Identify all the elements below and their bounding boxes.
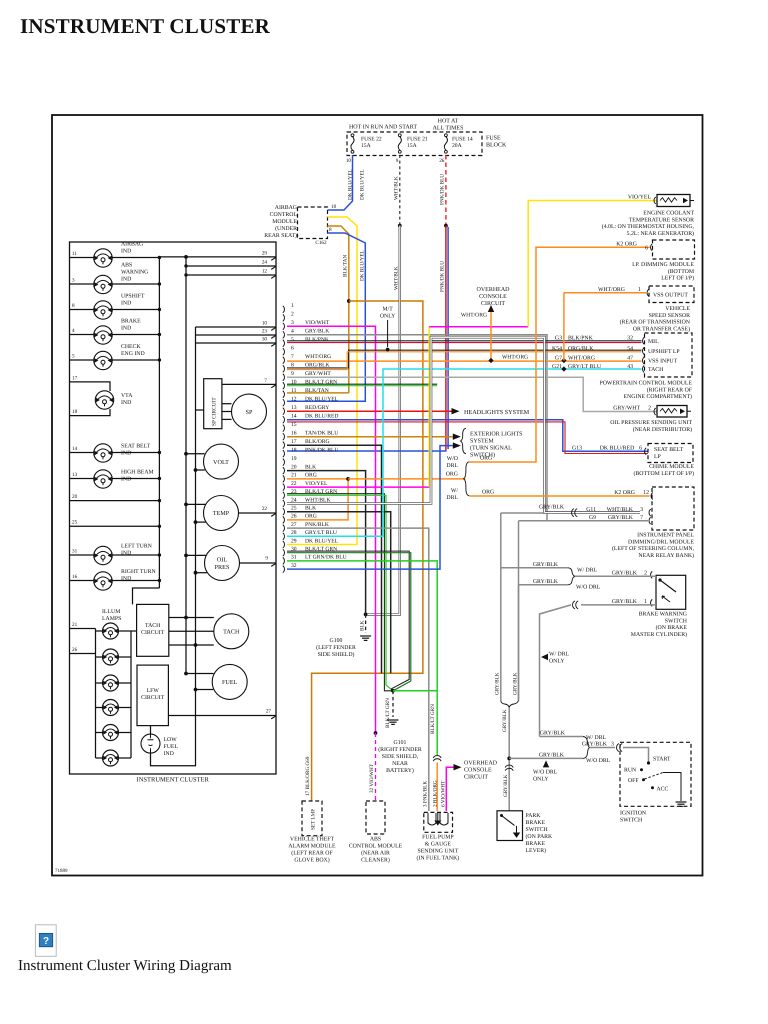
svg-text:WHT/ORG: WHT/ORG [568,355,595,361]
svg-text:17 BLK/ORG G69: 17 BLK/ORG G69 [305,756,311,796]
wire WHT/BLK from fuse 21 [399,155,401,226]
svg-text:ABS: ABS [121,263,132,269]
note W/ DRL ONLY [541,654,548,660]
svg-text:LFW: LFW [147,688,160,694]
tach circuit to tach gauge wires [169,617,214,619]
svg-text:SP: SP [246,409,253,416]
wire GRY/BLK 3 to ignition switch [623,748,649,764]
wire PNK/BLK pin 27 to fuel pump [287,528,429,811]
ignition switch [620,742,691,806]
svg-text:AIRBAG: AIRBAG [275,205,297,211]
seat belt lamp chime module [648,444,693,463]
cluster pin 7 wire [222,383,276,385]
svg-text:GRY/BLK: GRY/BLK [503,774,509,797]
svg-text:IND: IND [164,751,174,757]
wire BLK/TAN to cluster pin 11 [287,392,349,394]
svg-text:IND: IND [121,301,131,307]
svg-text:SIDE SHIELD): SIDE SHIELD) [318,651,355,658]
ignition merge brace [583,737,590,759]
wire PNK/DK BLU from fuse 14 [445,155,447,226]
svg-text:ORG: ORG [480,456,492,462]
tachometer gauge [214,614,249,649]
svg-text:8: 8 [72,303,75,309]
svg-text:15: 15 [291,422,297,428]
wire ORG pins 21 26 [287,479,348,520]
svg-text:14: 14 [291,414,297,420]
junction BLK [364,613,368,617]
wire VIO/WHT to ABS control module [375,733,377,801]
svg-text:9: 9 [396,158,399,164]
svg-text:(TURN SIGNAL: (TURN SIGNAL [470,445,512,452]
gauge bus B [195,327,197,690]
svg-text:20: 20 [72,494,78,500]
vehicle speed sensor VSS output [649,286,694,303]
park brake switch [497,811,523,841]
svg-text:21: 21 [291,473,297,479]
svg-text:LEFT OF I/P): LEFT OF I/P) [661,275,694,282]
svg-text:2: 2 [291,312,294,318]
svg-text:HOT IN RUN AND START: HOT IN RUN AND START [349,125,417,131]
wire VIO/WHT pin 3 [287,326,376,733]
svg-text:Instrument Cluster Wiring Diag: Instrument Cluster Wiring Diagram [18,958,232,974]
svg-text:5: 5 [72,354,75,360]
junction BLK/TAN [347,299,351,303]
svg-text:PRES: PRES [215,564,230,571]
svg-text:(REAR OF TRANSMISSION: (REAR OF TRANSMISSION [620,319,691,326]
svg-text:ONLY: ONLY [549,659,565,665]
wire BLK pin 25 [287,512,391,674]
svg-text:4: 4 [72,328,75,334]
svg-text:SYSTEM: SYSTEM [470,439,494,445]
svg-text:RIGHT TURN: RIGHT TURN [121,569,157,575]
svg-text:WHT/ORG: WHT/ORG [305,354,331,360]
svg-text:INSTRUMENT CLUSTER: INSTRUMENT CLUSTER [137,777,210,784]
svg-text:CIRCUIT: CIRCUIT [141,630,165,636]
svg-text:G13: G13 [572,445,582,451]
svg-text:W/ DRL: W/ DRL [549,652,570,658]
svg-text:6: 6 [291,346,294,352]
svg-text:ORG/BLK: ORG/BLK [568,346,594,352]
wire GRY/BLK w/o drl only [509,757,583,759]
cluster pin 27 wire [168,715,276,717]
wire ORG to IP dimming module [469,247,650,462]
svg-text:1: 1 [291,303,294,309]
svg-text:ENG IND: ENG IND [121,351,145,357]
svg-text:ALL TIMES: ALL TIMES [433,126,464,132]
svg-text:W/O DRL: W/O DRL [533,770,558,776]
svg-text:DIMMING/DRL MODULE: DIMMING/DRL MODULE [628,539,694,545]
wire BLK/ORG pin 17 [287,445,382,673]
svg-text:ALARM MODULE: ALARM MODULE [288,844,336,850]
svg-text:OR TRANSFER CASE): OR TRANSFER CASE) [633,325,690,332]
svg-text:10: 10 [346,158,352,164]
exterior lights system brace [461,428,467,453]
cluster pin 29 wire [159,256,276,258]
svg-text:16: 16 [72,574,78,580]
IP dimming module [653,240,695,259]
svg-text:21: 21 [72,622,78,628]
svg-text:FUSE 22: FUSE 22 [361,137,382,143]
svg-text:OFF: OFF [628,778,639,784]
svg-text:11: 11 [291,388,297,394]
wire BLK/LT GRN pin 30 to ground G101 [287,551,409,691]
svg-text:3: 3 [611,741,614,747]
svg-text:MODULE: MODULE [272,219,297,225]
svg-text:10: 10 [331,204,337,210]
svg-text:18: 18 [291,448,297,454]
svg-text:SWITCH: SWITCH [526,827,549,833]
svg-text:CHIME MODULE: CHIME MODULE [649,464,694,470]
svg-text:GRY/WHT: GRY/WHT [613,406,640,412]
svg-text:31: 31 [291,555,297,561]
svg-text:IND: IND [121,326,131,332]
svg-text:G21: G21 [552,364,562,370]
svg-text:VSS INPUT: VSS INPUT [648,359,678,365]
voltmeter gauge [204,444,239,479]
svg-text:CONTROL: CONTROL [270,212,298,218]
svg-text:HEADLIGHTS SYSTEM: HEADLIGHTS SYSTEM [464,409,530,416]
svg-text:SEAT BELT: SEAT BELT [121,444,151,450]
cluster pin 9 wire [240,562,277,564]
drl merge brace [568,568,575,585]
svg-text:TEMPERATURE SENSOR: TEMPERATURE SENSOR [629,217,694,223]
svg-text:9: 9 [291,371,294,377]
svg-text:LEVER): LEVER) [526,847,547,854]
note W/O DRL ONLY [543,760,549,767]
svg-text:(LEFT OF STEERING COLUMN,: (LEFT OF STEERING COLUMN, [612,545,695,552]
svg-text:(RIGHT FENDER: (RIGHT FENDER [378,746,422,753]
org drl split brace [464,462,470,496]
svg-text:START: START [653,757,671,763]
svg-text:TEMP: TEMP [213,510,230,517]
svg-text:DK BLU/YEL: DK BLU/YEL [348,169,354,200]
svg-text:(UNDER: (UNDER [275,225,297,232]
cluster connector exit arrows [271,257,276,260]
svg-text:DK BLU/YEL: DK BLU/YEL [305,538,339,544]
svg-text:54: 54 [627,346,633,352]
svg-text:I.P. DIMMING MODULE: I.P. DIMMING MODULE [632,262,694,268]
svg-text:BRAKE: BRAKE [121,319,141,325]
svg-text:VSS OUTPUT: VSS OUTPUT [653,293,688,299]
svg-text:IND: IND [121,249,131,255]
inline connector GRY/BLK 1 [573,601,575,609]
svg-text:32 VIO/WHT: 32 VIO/WHT [369,763,375,793]
svg-text:BRAKE WARNING: BRAKE WARNING [639,612,687,618]
svg-text:W/O DRL: W/O DRL [586,758,611,764]
svg-text:SPEED SENSOR: SPEED SENSOR [649,313,691,319]
svg-text:BRAKE: BRAKE [526,820,546,826]
wire BLK/LT GRN to fuel pump [393,690,437,692]
svg-text:M/T: M/T [382,307,393,313]
svg-text:TACH: TACH [223,629,240,636]
svg-text:SWITCH: SWITCH [620,818,643,824]
svg-text:8: 8 [329,227,332,233]
low fuel indicator [150,726,152,735]
svg-text:WARNING: WARNING [121,270,148,276]
svg-text:PNK/BLK: PNK/BLK [305,522,329,528]
ABS control module [366,801,385,834]
svg-text:29: 29 [262,251,268,257]
svg-text:OVERHEAD: OVERHEAD [464,761,498,767]
fuse 14 20A [351,134,354,137]
svg-text:10: 10 [262,321,268,327]
svg-text:ONLY: ONLY [533,777,549,783]
wire ORG to drl split [348,478,465,480]
svg-text:ONLY: ONLY [380,314,396,320]
inline connector fuel pump [433,756,441,758]
wire ORG/BLK pin 8 to PCM upshift [287,350,642,368]
svg-text:G11: G11 [586,507,596,513]
svg-text:INSTRUMENT PANEL: INSTRUMENT PANEL [637,533,694,539]
wire GRY/BLK w drl drop [500,513,502,568]
svg-text:G7: G7 [555,355,562,361]
svg-text:IGNITION: IGNITION [620,811,647,817]
svg-text:VIO/YEL: VIO/YEL [628,195,652,201]
LFW circuit box [137,665,168,726]
svg-text:(IN FUEL TANK): (IN FUEL TANK) [417,855,460,862]
junction ORG [346,477,350,481]
inline connector G11 [572,509,574,517]
connector C1 pins 1-32 [283,306,285,313]
svg-text:15A: 15A [407,143,417,149]
cluster pins 10 23 30 wires [196,326,277,328]
footer help icon [35,925,56,957]
svg-text:& GAUGE: & GAUGE [425,842,452,848]
svg-text:IND: IND [121,400,131,406]
svg-text:5.2L: NEAR GENERATOR): 5.2L: NEAR GENERATOR) [627,230,694,237]
temperature gauge [204,496,239,531]
svg-text:OIL PRESSURE SENDING UNIT: OIL PRESSURE SENDING UNIT [610,420,692,426]
wire GRY/BLK G9 to dimming module [519,520,649,522]
svg-text:SP CIRCUIT: SP CIRCUIT [212,397,218,426]
svg-text:EXTERIOR LIGHTS: EXTERIOR LIGHTS [470,432,523,438]
svg-text:NEAR RELAY BANK): NEAR RELAY BANK) [638,552,694,559]
svg-text:LT GRN/DK BLU: LT GRN/DK BLU [305,555,347,561]
svg-text:GRY/BLK: GRY/BLK [305,329,329,335]
svg-text:W/ DRL: W/ DRL [586,735,607,741]
svg-text:BLK/ORG: BLK/ORG [305,439,330,445]
wire BLK/TAN from airbag module pin 8 [327,226,348,393]
svg-text:17: 17 [291,439,297,445]
svg-text:3: 3 [72,278,75,284]
svg-text:CONTROL MODULE: CONTROL MODULE [349,844,403,850]
svg-text:CHECK: CHECK [121,344,141,350]
svg-text:VTA: VTA [121,393,133,399]
wire GRY/BLK w/o drl [519,584,569,586]
svg-text:7: 7 [264,378,267,384]
inline connector park brake [505,765,513,767]
wire DK BLU/YEL to cluster pin 12 [287,233,365,401]
svg-text:BLK/PNK: BLK/PNK [568,336,594,342]
svg-text:CONSOLE: CONSOLE [464,768,492,774]
wire LT GRN/DK BLU pin 31 to fuel pump [287,561,437,755]
svg-text:INSTRUMENT CLUSTER: INSTRUMENT CLUSTER [20,14,271,38]
svg-text:6: 6 [639,445,642,451]
svg-text:K2 ORG: K2 ORG [614,490,635,496]
svg-text:OIL: OIL [217,557,228,564]
svg-text:2 BLK/ORG: 2 BLK/ORG [433,780,439,807]
svg-text:DK BLU/YEL: DK BLU/YEL [305,397,339,403]
wire GRY/BLK to park brake switch [508,707,510,810]
brake warning switch [656,575,686,609]
svg-text:UPSHIFT LP: UPSHIFT LP [648,349,680,355]
svg-text:(NEAR AIR: (NEAR AIR [361,850,390,857]
wire BLK/PNK pin 5 to PCM MIL [287,340,642,342]
fuel pump and gauge sending unit [424,812,453,832]
wire VIO/YEL riser [428,327,430,487]
svg-text:DK BLU/YEL: DK BLU/YEL [360,169,366,200]
svg-text:RUN: RUN [624,768,637,774]
wire GRY/BLK pin 4 to dimming module [287,335,547,521]
SP circuit box [204,379,222,429]
wire RED/GRY pin 13 to headlights system [287,410,452,412]
svg-text:TAN/DK BLU: TAN/DK BLU [305,431,338,437]
inline connector GRY/BLK 3 [617,744,619,752]
svg-text:MASTER CYLINDER): MASTER CYLINDER) [631,631,687,638]
wire GRY/BLK 3 [590,747,616,749]
svg-text:(LEFT FENDER: (LEFT FENDER [316,644,356,651]
svg-text:26: 26 [439,158,445,164]
svg-text:WHT/ORG: WHT/ORG [598,287,625,293]
cluster pin 12 wire [186,274,276,276]
wire DK BLU/YEL airbag module to cluster pin 29 [287,217,357,545]
svg-text:IND: IND [121,576,131,582]
svg-text:DRL: DRL [446,463,458,469]
svg-text:FUSE 14: FUSE 14 [452,137,473,143]
wire GRY/LT BLU pin 28 to PCM tach [287,369,642,536]
svg-text:WHT/ORG: WHT/ORG [502,355,528,361]
wire GRY/BLK left drop to park brake [500,568,502,701]
ignition switch ground [676,801,687,803]
svg-text:47: 47 [627,355,633,361]
svg-text:W/: W/ [451,488,458,494]
wire BLK/LT GRN pin 23 to ground G101 [287,494,393,691]
svg-text:25: 25 [72,520,78,526]
svg-text:G101: G101 [394,740,407,746]
svg-text:4: 4 [291,329,294,335]
svg-text:(4.0L: ON THERMOSTAT HOUSING,: (4.0L: ON THERMOSTAT HOUSING, [602,223,695,230]
svg-text:GRY/BLK: GRY/BLK [495,672,501,695]
wire DK BLU pin 32 to turn signal switch [287,446,453,569]
park brake merge brace [501,700,519,707]
wire PNK/DK BLU down [445,226,447,451]
svg-text:SET LMP: SET LMP [311,809,317,830]
svg-text:PNK/DK BLU: PNK/DK BLU [305,448,338,454]
svg-text:FUEL: FUEL [164,744,179,750]
wire WHT/BLK down to ground G100 [366,226,400,615]
svg-text:CLEANER): CLEANER) [361,857,390,864]
svg-text:LP: LP [654,454,661,460]
diagram border frame [52,115,703,876]
svg-text:CIRCUIT: CIRCUIT [464,775,488,781]
svg-text:12: 12 [262,269,268,275]
svg-text:WHT/BLK: WHT/BLK [394,176,400,200]
powertrain control module U1 [645,333,693,377]
instrument cluster box [70,242,277,774]
svg-text:IND: IND [121,551,131,557]
svg-text:TACH: TACH [145,623,161,629]
svg-text:22: 22 [262,506,268,512]
ground G100 [360,635,371,637]
svg-text:43: 43 [627,364,633,370]
svg-text:GRY/BLK: GRY/BLK [582,741,608,747]
svg-text:GRY/BLK: GRY/BLK [502,709,508,732]
svg-text:20A: 20A [452,143,462,149]
svg-text:G100: G100 [330,638,343,644]
svg-text:REAR SEAT): REAR SEAT) [264,232,297,239]
svg-text:C162: C162 [315,240,327,246]
svg-text:19: 19 [291,456,297,462]
junction GRY/BLK [507,757,511,761]
svg-text:PNK/DK BLU: PNK/DK BLU [440,261,446,292]
oil pressure gauge [205,546,240,581]
wire GRY/BLK w drl [501,567,568,569]
svg-text:31: 31 [72,549,78,555]
junction WHT/BLK [398,224,402,228]
svg-text:12: 12 [643,490,649,496]
wire WHT/BLK pin 24 to dimming module [287,337,640,512]
svg-text:BLK/LT GRN: BLK/LT GRN [385,698,391,728]
svg-text:PNK/DK BLU: PNK/DK BLU [440,174,446,205]
svg-text:VIO/WHT: VIO/WHT [305,320,330,326]
svg-text:GLOVE BOX): GLOVE BOX) [294,857,329,864]
cluster lamp bus [158,258,160,589]
junction node G101 [391,689,395,693]
svg-text:13: 13 [291,405,297,411]
svg-text:6: 6 [645,246,648,252]
svg-text:29: 29 [291,538,297,544]
svg-text:ENGINE COOLANT: ENGINE COOLANT [643,211,694,217]
svg-text:3: 3 [291,320,294,326]
svg-text:BLK: BLK [305,506,316,512]
svg-text:13: 13 [72,472,78,478]
svg-text:VEHICLE: VEHICLE [665,306,690,312]
fuel gauge [212,664,247,699]
wire GRY/BLK right drop to park brake [518,585,520,701]
svg-text:2: 2 [648,406,651,412]
wire WHT/ORG overhead console tap [490,312,492,361]
svg-text:ENGINE COMPARTMENT): ENGINE COMPARTMENT) [623,393,692,400]
svg-text:GRY/BLK: GRY/BLK [539,505,565,511]
wire BLK/ORG to fuel pump [436,763,438,812]
speedometer gauge SP [232,394,267,429]
svg-text:MIL: MIL [648,339,659,345]
svg-text:BLK: BLK [360,620,366,631]
svg-text:AIRBAG: AIRBAG [121,242,143,248]
svg-text:VIO/YEL: VIO/YEL [305,481,328,487]
svg-text:OVERHEAD: OVERHEAD [477,287,511,293]
svg-text:1: 1 [638,287,641,293]
ground G101 [388,719,399,721]
svg-text:32: 32 [627,336,633,342]
svg-text:RED/GRY: RED/GRY [305,405,329,411]
svg-text:BLK/LT GRN: BLK/LT GRN [430,704,436,734]
svg-text:K2 ORG: K2 ORG [616,241,637,247]
svg-text:W/O DRL: W/O DRL [576,584,601,590]
wire GRY/BLK w drl only [540,605,572,737]
oil pressure sending unit [657,406,687,418]
svg-text:DK BLU/YEL: DK BLU/YEL [359,250,365,281]
svg-text:SIDE SHIELD,: SIDE SHIELD, [382,754,419,760]
svg-text:WHT/ORG: WHT/ORG [461,313,487,319]
svg-text:DRL: DRL [446,495,458,501]
svg-text:BLK: BLK [305,464,316,470]
svg-text:GRY/BLK: GRY/BLK [513,672,519,695]
svg-text:CONSOLE: CONSOLE [479,294,507,300]
junction WHT/ORG diamond [561,358,566,363]
svg-text:71889: 71889 [55,868,68,874]
wire GRY/WHT pin 9 to oil pressure sender [287,377,657,411]
